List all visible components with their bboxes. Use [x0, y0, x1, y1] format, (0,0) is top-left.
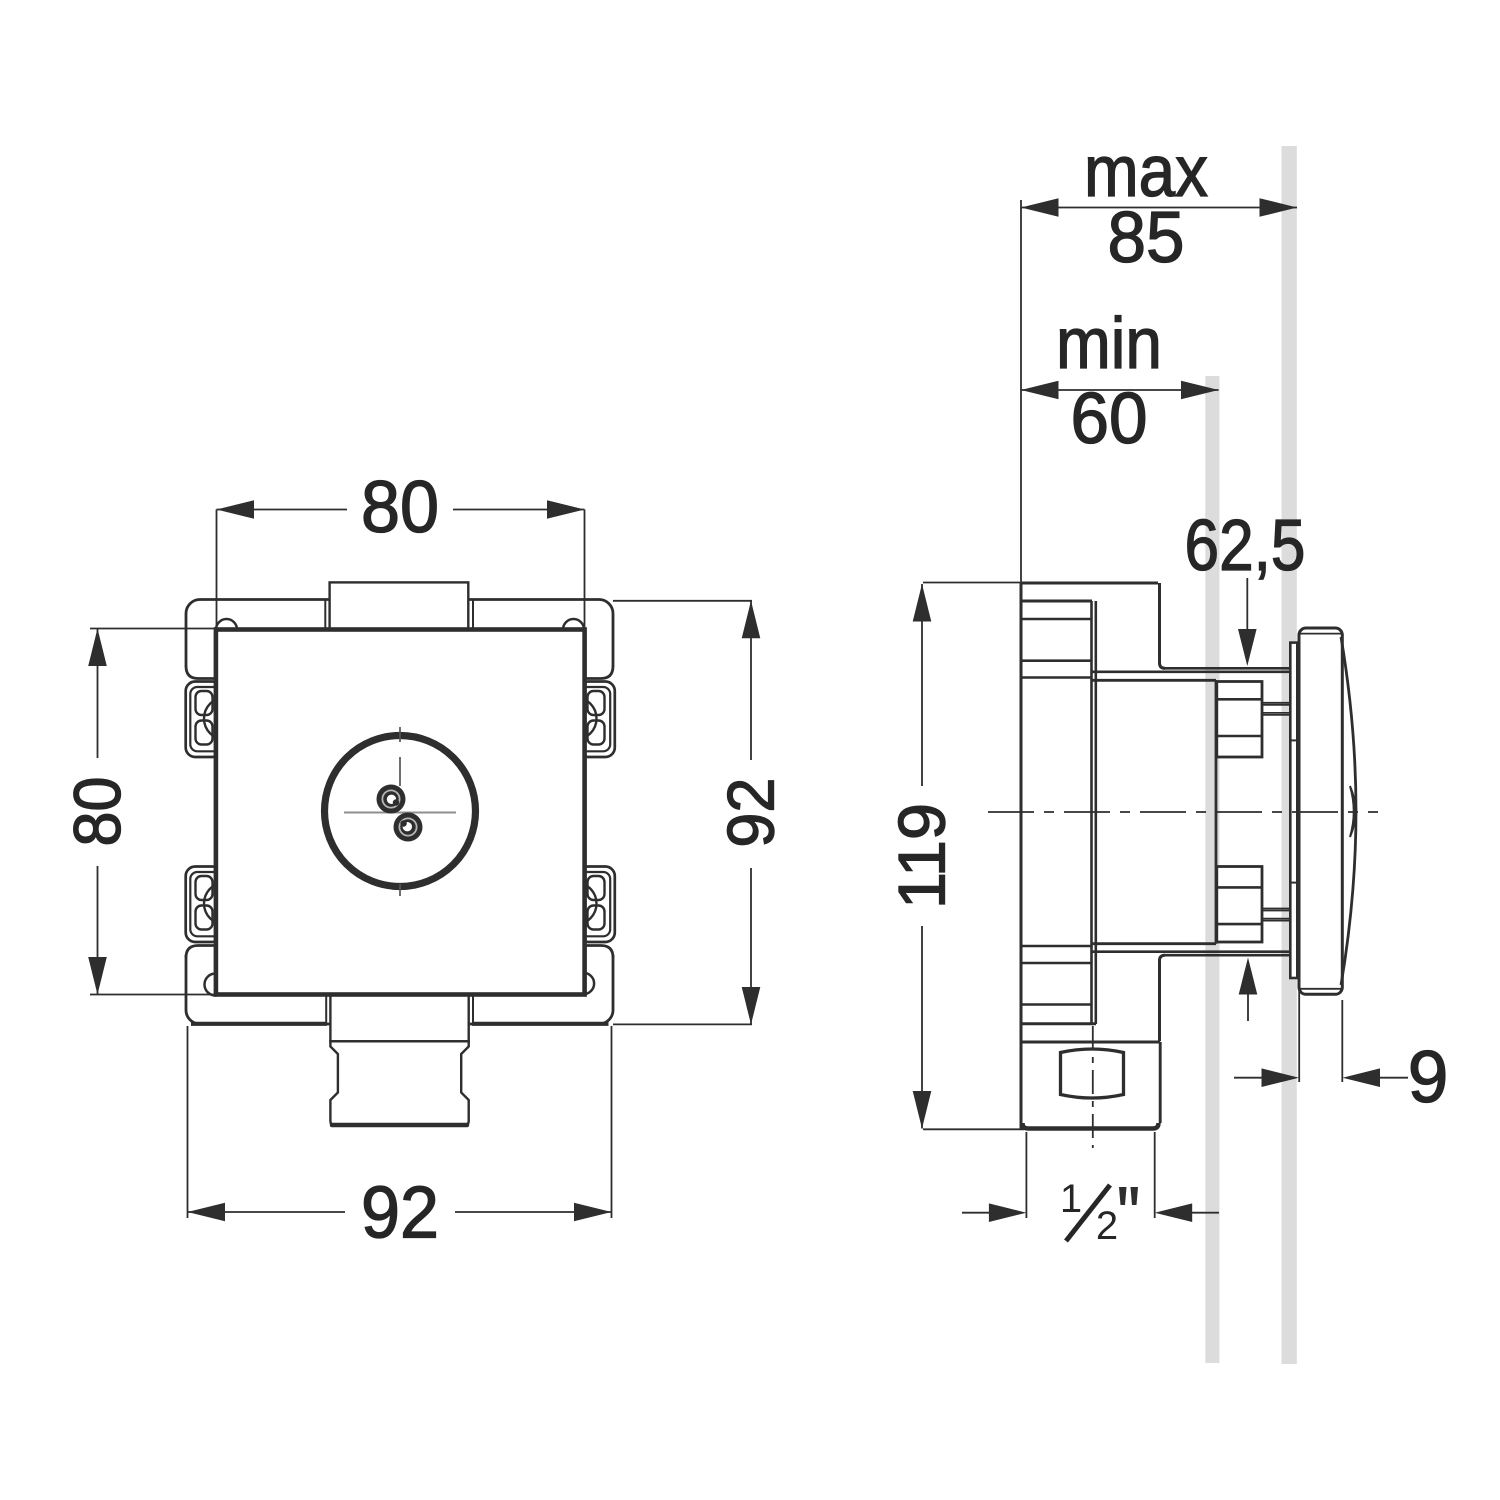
- flange inner line lower: [1021, 962, 1091, 965]
- flange lobe bottom curve upper-left: [186, 666, 216, 679]
- top tab: [330, 582, 469, 629]
- dim 9: arrow left-pointing: [1343, 1068, 1381, 1087]
- wall bar inner (min wall): [1205, 376, 1219, 1363]
- knob tip lens: [1350, 786, 1356, 837]
- clip screw stem upper: [1262, 703, 1290, 715]
- center circle: [325, 736, 476, 887]
- dim 1/2": arrow left-pointing: [1155, 1203, 1193, 1222]
- flange bottom edge: [1021, 1022, 1096, 1025]
- dim 92 right: dimension line: [750, 601, 752, 760]
- bottom pipe connector: [330, 1041, 468, 1125]
- horizontal dash-dot centerline: [988, 811, 1378, 813]
- knob dome profile: [1341, 637, 1356, 985]
- flange bottom shadow edge right segment: [472, 1022, 609, 1026]
- flange lobe top curve lower-right: [583, 946, 613, 958]
- flange side cutout erase left: [182, 667, 216, 955]
- dim 92 bottom: arrow right: [574, 1203, 612, 1222]
- dim 62,5: arrow down: [1246, 578, 1248, 640]
- connector top edge: [1021, 1041, 1160, 1044]
- clip screw stem lower: [1262, 909, 1290, 921]
- dim 80 left: extension lines: [90, 628, 216, 630]
- tab top edge: [1021, 582, 1158, 585]
- wall bar outer (max wall): [1282, 146, 1297, 1364]
- dim 92 bottom: dimension line: [188, 1211, 346, 1213]
- rail lower line2: [1092, 950, 1290, 953]
- flange step line lower: [1021, 1003, 1091, 1006]
- rail upper line2: [1092, 670, 1290, 673]
- dim 80 top: arrow left: [217, 500, 255, 519]
- dim 92 right: extension lines: [613, 600, 752, 602]
- flange step line upper: [1021, 618, 1091, 621]
- dim max 85: arrow left: [1021, 198, 1059, 217]
- svg-text:60: 60: [1071, 379, 1148, 459]
- dim 9: arrow right-pointing: [1262, 1068, 1300, 1087]
- mounting clip lower-left: [186, 867, 246, 943]
- flange top edge: [1021, 600, 1092, 603]
- dim 80 top: dimension line: [217, 509, 348, 511]
- dim 1/2": arrow right-pointing: [989, 1203, 1027, 1222]
- flange notch edge top-right: [472, 599, 474, 630]
- dim 119: dimension line: [921, 584, 923, 786]
- wall plate strip: [1290, 643, 1297, 978]
- box body (square): [216, 630, 585, 995]
- dim 80 left: dimension line: [97, 629, 99, 759]
- dim 9: tail right: [1372, 1077, 1408, 1079]
- corner hole top-right: [563, 619, 584, 640]
- connector bottom thick edge: [1023, 1123, 1159, 1129]
- vertical centerline tick top: [399, 727, 401, 742]
- connector right edge: [1159, 1042, 1162, 1123]
- dim 9: extension from plate: [1341, 1000, 1343, 1082]
- strip joint lower: [1290, 882, 1297, 884]
- dim min 60: arrow right: [1181, 381, 1219, 400]
- dim min 60: arrow left: [1021, 381, 1059, 400]
- box front face: [1215, 680, 1218, 943]
- svg-text:92: 92: [714, 778, 788, 848]
- box bottom edge: [1092, 942, 1216, 945]
- flange notch edge bottom-left: [325, 995, 327, 1025]
- dim 80 left: arrow up: [88, 629, 107, 667]
- dim 1/2": extension right: [1154, 1132, 1156, 1218]
- corner hole top-left: [216, 619, 237, 640]
- svg-text:9: 9: [1408, 1037, 1449, 1118]
- corner hole bottom-right: [573, 973, 594, 994]
- bottom pipe connector thick bottom edge: [332, 1123, 467, 1128]
- dim 1/2": text: [1063, 1184, 1080, 1212]
- flange front edge line2: [1095, 601, 1098, 1024]
- flange lobe top curve lower-left: [186, 946, 216, 958]
- dim 62,5: arrow up (lower): [1247, 992, 1249, 1021]
- flange notch edge top-left: [324, 599, 326, 630]
- vertical dash-dot axis bottom connector: [1092, 1026, 1094, 1148]
- dim 80 top: extension lines: [216, 510, 218, 630]
- svg-text:62,5: 62,5: [1185, 506, 1306, 586]
- corner hole bottom-left: [205, 974, 227, 996]
- flange side cutout erase right: [583, 667, 617, 955]
- box top edge: [1092, 679, 1216, 682]
- flange lobe bottom curve upper-right: [583, 666, 613, 679]
- escutcheon inner line top: [1299, 633, 1341, 635]
- flange front edge line1: [1090, 601, 1093, 1024]
- svg-text:92: 92: [361, 1173, 439, 1254]
- flange bottom shadow edge left segment: [191, 1022, 327, 1026]
- body back edge: [1020, 583, 1023, 1129]
- vertical centerline tick bottom: [399, 884, 401, 896]
- shoulder line lower: [1021, 945, 1092, 948]
- bottom tab upper part: [330, 994, 468, 1041]
- flange inner line upper: [1021, 659, 1091, 662]
- inch marks: [1119, 1187, 1127, 1205]
- tab right edge bottom: [1160, 955, 1166, 1041]
- dim min 60: dimension line: [1021, 389, 1219, 391]
- dim 92 bottom: arrow left: [188, 1203, 226, 1222]
- dim 119: arrow up: [913, 584, 932, 622]
- dim max 85: extension line up: [1020, 200, 1022, 583]
- svg-text:80: 80: [60, 777, 134, 847]
- strip joint upper: [1290, 739, 1297, 741]
- horizontal centerline: [344, 812, 456, 814]
- mounting clip upper-right: [555, 682, 615, 758]
- dim 80 top: arrow right: [547, 500, 585, 519]
- rail lower line1: [1163, 954, 1290, 957]
- clip block upper (side view): [1217, 682, 1262, 758]
- dim 119: extension line top: [923, 582, 1020, 584]
- dim max 85: arrow right: [1260, 198, 1298, 217]
- dim 92 right: arrow down: [742, 987, 761, 1024]
- dim 92 right: arrow up: [742, 601, 761, 639]
- escutcheon inner line bottom: [1299, 988, 1341, 990]
- clip block lower (side view): [1217, 867, 1262, 943]
- mounting clip upper-left: [186, 682, 246, 758]
- svg-text:80: 80: [361, 467, 439, 548]
- escutcheon plate: [1299, 628, 1342, 994]
- dim 119: extension line bottom: [923, 1128, 1024, 1130]
- connector window (1/2 inch socket): [1061, 1049, 1124, 1098]
- screw upper: [377, 785, 406, 814]
- dim 92 bottom: extension lines: [187, 1026, 189, 1218]
- svg-text:119: 119: [885, 803, 959, 909]
- flange notch edge bottom-right: [472, 995, 474, 1025]
- dim 80 left: arrow down: [88, 957, 107, 995]
- dim 9: tail left: [1234, 1077, 1263, 1079]
- dim 1/2": extension left: [1025, 1132, 1027, 1218]
- svg-text:min: min: [1056, 304, 1162, 384]
- rail upper line1: [1163, 667, 1290, 670]
- shoulder line upper: [1021, 676, 1092, 679]
- flange outer plate: [186, 600, 613, 1025]
- screw lower: [394, 813, 423, 842]
- tab right edge top: [1160, 583, 1166, 668]
- dim 119: arrow down: [913, 1091, 932, 1129]
- dim max 85: dimension line: [1021, 207, 1297, 209]
- mounting clip lower-right: [555, 867, 615, 943]
- svg-text:85: 85: [1108, 198, 1185, 278]
